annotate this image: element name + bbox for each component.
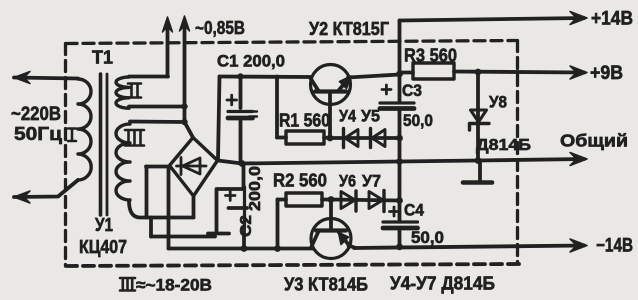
rectifier V1 inner diode lead bbox=[177, 165, 207, 168]
wire unregulated plus rail bbox=[220, 75, 312, 79]
wire mains input top bbox=[14, 78, 78, 79]
transistor V2 base lead bbox=[328, 94, 332, 139]
node C2 negative junction bbox=[241, 245, 248, 252]
node R2 drop junction bbox=[274, 245, 281, 252]
wire vertical to negative rail bbox=[167, 167, 171, 249]
wire down from bridge-left lead bbox=[145, 167, 149, 218]
rectifier V1 inner diode cathode bar bbox=[180, 158, 183, 175]
wire R1 left lead bbox=[277, 136, 286, 140]
arrow common output bbox=[570, 153, 587, 166]
transistor V2 base bar bbox=[315, 89, 346, 93]
zener V8 top lead bbox=[476, 72, 480, 161]
wire R3 right lead / plus9 rail bbox=[454, 72, 584, 73]
transformer T1 core line 2 bbox=[106, 74, 109, 215]
small approx mark bbox=[249, 112, 257, 117]
capacitor C4 positive plate bbox=[383, 220, 418, 223]
wire R2 left lead bbox=[278, 198, 287, 202]
wire R3 left lead bbox=[400, 71, 414, 75]
transformer T1 winding III (secondary 18-20V) bbox=[116, 124, 130, 200]
node common rail bus junction bbox=[396, 158, 403, 165]
capacitor C2 plus sign bbox=[226, 191, 236, 201]
transformer T1 winding II (secondary 0.85V) bbox=[116, 77, 129, 108]
arrow plus9 output bbox=[570, 66, 587, 79]
wire to bridge top corner bbox=[185, 122, 194, 138]
node zener junction on plus9 bbox=[475, 69, 482, 76]
wire V4 left lead bbox=[330, 136, 400, 140]
node R3 junction bbox=[396, 71, 403, 78]
wire common rail bbox=[218, 159, 584, 164]
zener V8 triangle bbox=[471, 110, 487, 122]
wire bridge left corner lead bbox=[146, 165, 170, 169]
capacitor C4 bottom lead bbox=[398, 230, 402, 247]
capacitor C1 plus sign bbox=[227, 95, 237, 105]
node C1 top junction bbox=[237, 73, 243, 79]
numeral III caption bbox=[120, 278, 135, 291]
node V7 bus junction bbox=[396, 197, 403, 204]
numeral I winding label bbox=[68, 129, 76, 142]
node winding III / II junction bbox=[181, 119, 187, 125]
wire R2 feed drop bbox=[276, 200, 280, 249]
capacitor C1 positive plate bbox=[228, 110, 253, 113]
wire plus14 bus up bbox=[398, 21, 402, 75]
wire R1 feed drop bbox=[275, 77, 279, 138]
numeral III winding label bbox=[125, 130, 144, 146]
wire bridge plus output up bbox=[218, 77, 220, 160]
diode V6 cathode bar bbox=[354, 191, 357, 211]
wire 0.85V output arrow 1 bbox=[166, 22, 170, 77]
capacitor C2 negative plate bracket bbox=[208, 189, 244, 234]
node C4 negative rail junction bbox=[396, 243, 403, 250]
resistor R3 body bbox=[413, 63, 454, 79]
ground bar bbox=[463, 180, 492, 185]
capacitor C1 bottom lead bbox=[239, 120, 243, 164]
transistor V3 base bar bbox=[316, 228, 346, 232]
capacitor C4 top lead bbox=[398, 162, 402, 221]
transistor V2 circle bbox=[311, 65, 351, 105]
rectifier V1 inner diode triangle bbox=[183, 158, 201, 174]
transformer T1 winding I (primary) bbox=[78, 79, 91, 180]
wire winding III top lead bbox=[130, 120, 185, 124]
wire R1 right lead bbox=[324, 136, 330, 140]
wire negative rail left bbox=[169, 247, 314, 251]
wire mains input bottom bbox=[14, 180, 78, 197]
wire plus14 rail bbox=[400, 18, 585, 21]
transistor V3 circle bbox=[311, 219, 351, 259]
wire negative rail right bbox=[354, 246, 584, 249]
wire V3 emitter to negative rail bbox=[349, 246, 357, 249]
transistor V2 emitter arrow bbox=[340, 76, 352, 89]
diode V7 cathode bar bbox=[382, 191, 385, 212]
wire bridge bottom lead bbox=[192, 196, 196, 218]
node winding II bottom junction bbox=[181, 103, 187, 109]
arrow plus14 output bbox=[570, 12, 587, 25]
diode V4 triangle bbox=[345, 130, 358, 147]
node common rail zener junction bbox=[475, 157, 482, 164]
dashed enclosure border bottom bbox=[66, 264, 519, 266]
node V3 base junction bbox=[328, 196, 335, 203]
wire step down-1 bbox=[149, 218, 153, 237]
wire V6 left lead bbox=[331, 200, 400, 201]
diode V7 triangle bbox=[369, 192, 383, 209]
capacitor C2 positive plate bar bbox=[229, 206, 248, 210]
numeral II winding label bbox=[128, 84, 141, 98]
capacitor C4 negative plate bbox=[383, 226, 418, 231]
capacitor C3 top lead bbox=[398, 75, 402, 102]
capacitor C1 negative plate bbox=[228, 116, 253, 121]
transistor V2 emitter bbox=[339, 79, 349, 91]
capacitor C1 plus lead bbox=[239, 77, 243, 109]
diode V4 cathode bar bbox=[342, 129, 345, 148]
capacitor C2 positive plate bbox=[243, 187, 246, 227]
wire winding III bottom lead bbox=[129, 201, 194, 218]
resistor R1 body bbox=[286, 131, 324, 144]
zener V8 cathode bar with tail bbox=[470, 124, 490, 131]
capacitor C3 plus sign bbox=[382, 85, 391, 94]
wire R2 right lead bbox=[322, 198, 331, 202]
capacitor C3 bottom lead bbox=[398, 111, 402, 162]
arrow mains top (left-pointing) bbox=[14, 72, 30, 84]
wire step horizontal bbox=[151, 235, 215, 239]
rectifier V1 bridge diamond bbox=[170, 138, 218, 197]
diode V5 cathode bar bbox=[369, 129, 372, 148]
dashed enclosure border right bbox=[516, 41, 519, 265]
transistor V3 emitter arrow (PNP) bbox=[339, 233, 349, 245]
diode V5 triangle bbox=[372, 130, 385, 147]
transistor V3 collector bbox=[312, 233, 319, 247]
transistor V2 collector bbox=[310, 78, 318, 91]
capacitor C3 positive plate bbox=[380, 101, 414, 104]
capacitor C4 plus sign bbox=[390, 207, 399, 216]
arrow minus14 output bbox=[570, 239, 587, 252]
transformer T1 core line 1 bbox=[99, 74, 103, 215]
capacitor C3 negative plate bbox=[380, 106, 414, 111]
transistor V3 emitter bbox=[339, 233, 350, 247]
node V2 base junction bbox=[327, 135, 334, 142]
resistor R2 body bbox=[286, 193, 322, 206]
diode V6 triangle bbox=[341, 192, 355, 209]
transistor V3 base lead bbox=[329, 200, 333, 230]
wire winding II top lead bbox=[129, 75, 168, 79]
node diode V5 junction bbox=[396, 135, 403, 142]
dashed enclosure border left bbox=[64, 44, 67, 267]
arrow mains bottom (left-pointing) bbox=[14, 191, 30, 203]
capacitor C2 top lead bbox=[242, 164, 246, 188]
node common rail C1 junction bbox=[239, 160, 246, 167]
wire V2 emitter to bus bbox=[348, 75, 400, 78]
dashed enclosure border top bbox=[66, 41, 517, 44]
capacitor C2 bottom lead bbox=[242, 227, 246, 249]
wire winding II bottom lead bbox=[129, 105, 185, 109]
wire 0.85V output arrow 2 bbox=[183, 21, 187, 122]
ground stub bbox=[478, 161, 482, 180]
